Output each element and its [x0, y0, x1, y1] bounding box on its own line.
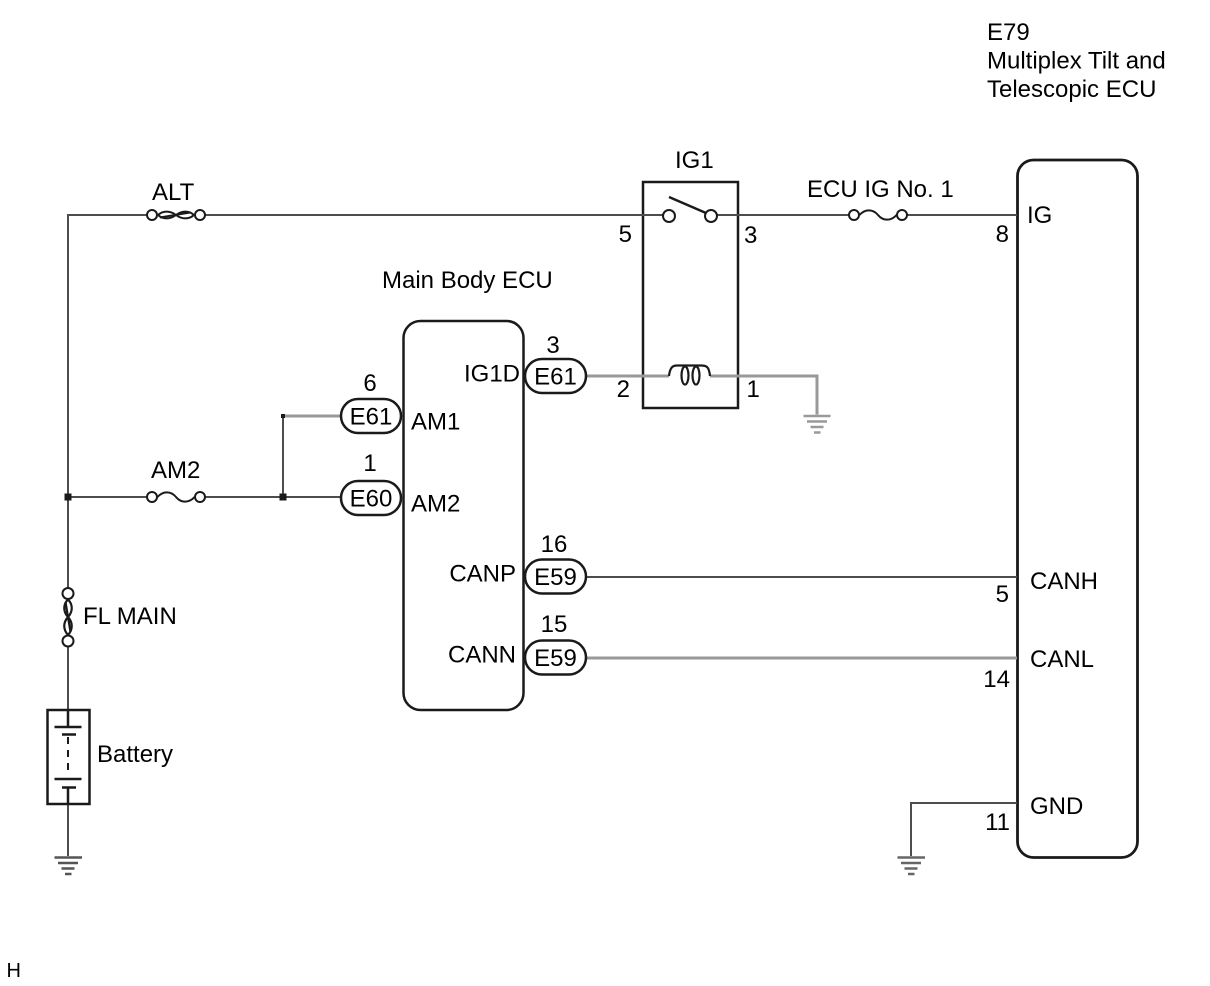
svg-text:AM2: AM2 [411, 491, 460, 518]
svg-text:IG: IG [1027, 202, 1052, 229]
svg-text:3: 3 [546, 332, 559, 359]
svg-text:IG1: IG1 [675, 147, 714, 174]
svg-text:Battery: Battery [97, 741, 173, 768]
svg-text:Telescopic ECU: Telescopic ECU [987, 76, 1156, 103]
svg-text:E61: E61 [350, 404, 393, 431]
svg-text:ALT: ALT [152, 179, 195, 206]
svg-text:H: H [7, 960, 21, 982]
svg-text:CANP: CANP [449, 561, 516, 588]
svg-text:5: 5 [619, 221, 632, 248]
svg-text:16: 16 [541, 531, 568, 558]
svg-text:AM1: AM1 [411, 409, 460, 436]
svg-text:2: 2 [617, 376, 630, 403]
svg-text:5: 5 [996, 581, 1009, 608]
svg-text:CANN: CANN [448, 642, 516, 669]
svg-text:Main Body ECU: Main Body ECU [382, 267, 553, 294]
svg-text:IG1D: IG1D [464, 361, 520, 388]
svg-text:3: 3 [744, 222, 757, 249]
svg-text:E79: E79 [987, 19, 1030, 46]
svg-text:GND: GND [1030, 793, 1083, 820]
svg-text:Multiplex Tilt and: Multiplex Tilt and [987, 48, 1166, 75]
svg-text:E60: E60 [350, 486, 393, 513]
svg-text:14: 14 [983, 666, 1010, 693]
svg-text:CANL: CANL [1030, 646, 1094, 673]
svg-text:E61: E61 [534, 364, 577, 391]
svg-text:AM2: AM2 [151, 457, 200, 484]
svg-text:E59: E59 [534, 645, 577, 672]
svg-text:1: 1 [363, 450, 376, 477]
svg-text:1: 1 [747, 376, 760, 403]
svg-text:FL MAIN: FL MAIN [83, 603, 177, 630]
svg-text:11: 11 [985, 809, 1010, 836]
svg-text:15: 15 [541, 611, 568, 638]
svg-text:E59: E59 [534, 564, 577, 591]
svg-text:CANH: CANH [1030, 568, 1098, 595]
svg-text:ECU IG No. 1: ECU IG No. 1 [807, 176, 954, 203]
svg-text:6: 6 [363, 370, 376, 397]
svg-text:8: 8 [996, 221, 1009, 248]
